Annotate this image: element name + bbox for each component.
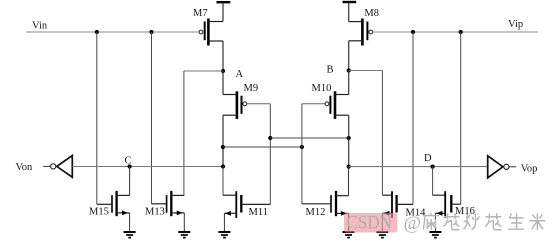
svg-text:M16: M16 (455, 206, 475, 217)
wire M14 drain vertical (412, 32, 414, 204)
ground M12 (343, 232, 355, 238)
wire M16 drain vertical (460, 32, 462, 204)
ground M16 (429, 232, 441, 238)
junction dot cross right (347, 136, 351, 140)
svg-text:M13: M13 (145, 207, 165, 218)
junction dot on M10-gate line (221, 145, 225, 149)
node C junction (221, 164, 225, 168)
junction dot M10 gate line (300, 145, 304, 149)
wire node A to M9 source (222, 71, 224, 95)
ground M13 (178, 232, 190, 238)
watermark CSDN logo box (344, 213, 398, 233)
transistor M12 (NMOS) (302, 167, 349, 232)
transistor M8 (PMOS, gate right with bubble) (349, 19, 373, 46)
wire M8 drain to node B (348, 41, 350, 71)
wire M9 drain down to node C (222, 115, 224, 166)
wire cross horizontal upper (270, 137, 348, 139)
wire M10 gate vertical to M12 gate (301, 104, 303, 204)
svg-text:Vin: Vin (32, 21, 48, 32)
ground M15 (124, 232, 136, 238)
svg-text:Von: Von (16, 162, 33, 173)
wire node D to M16 gate (432, 167, 434, 196)
wire node B to M10 source (348, 71, 350, 95)
inverter Von (43, 156, 72, 178)
power VDD2 (343, 2, 357, 22)
watermark hanzi strokes (423, 213, 546, 230)
wire M13 gate vertical (151, 32, 153, 204)
ground M14 (376, 232, 388, 238)
transistor M9 (PMOS, gate right) (223, 91, 247, 119)
transistor M16 (NMOS, source left) (433, 191, 461, 231)
transistor M15 (NMOS) (97, 167, 130, 232)
wire M10 gate horizontal (302, 103, 325, 105)
wire node C row (72, 166, 223, 168)
svg-text:CSDN: CSDN (347, 214, 393, 234)
junction dot cross left (268, 136, 272, 140)
power VDD1 (217, 2, 231, 21)
svg-text:A: A (236, 69, 244, 80)
wire Vin rail (26, 31, 199, 33)
wire cross horizontal lower (223, 146, 302, 148)
svg-text:M8: M8 (364, 8, 379, 19)
svg-text:M9: M9 (244, 83, 259, 94)
svg-text:M11: M11 (249, 207, 268, 218)
node A junction (221, 69, 225, 73)
svg-text:M10: M10 (312, 83, 332, 94)
transistor M10 (PMOS, gate left) (325, 91, 349, 119)
node D junction (431, 165, 435, 169)
svg-text:Vop: Vop (521, 164, 538, 175)
transistor M11 (NMOS, source left) (223, 191, 270, 231)
transistor M13 (NMOS) (152, 191, 185, 232)
svg-text:M7: M7 (193, 8, 208, 19)
transistor M7 (PMOS) (199, 19, 223, 46)
wire node A left branch (184, 71, 223, 195)
svg-text:M15: M15 (89, 207, 109, 218)
svg-text:C: C (125, 156, 132, 167)
junction dot Vin-M13 (149, 30, 153, 34)
junction dot Vin-M15 (95, 30, 99, 34)
junction dot Vip-M14 (411, 30, 415, 34)
inverter Vop (488, 156, 517, 178)
ground M11 (218, 232, 230, 238)
svg-text:D: D (424, 153, 432, 164)
wire M15 gate vertical (96, 32, 98, 204)
wire M10 drain down to node D (348, 115, 350, 166)
wire M9 gate to cross node (247, 104, 270, 205)
junction dot D-row left (347, 165, 351, 169)
svg-text:M12: M12 (306, 207, 326, 218)
wire node D row (349, 166, 488, 168)
node B junction (347, 68, 351, 72)
svg-text:B: B (327, 65, 334, 76)
wire node B right branch (349, 71, 383, 196)
wire Vip rail (373, 31, 538, 33)
wire M7 drain to node A (222, 41, 224, 71)
junction dot M15 drain (128, 164, 132, 168)
junction dot Vip-M16 (459, 30, 463, 34)
svg-text:@: @ (404, 213, 422, 234)
wire node C to M11 gate (222, 167, 224, 196)
transistor M14 (NMOS, source left) (382, 191, 413, 231)
svg-text:Vip: Vip (508, 19, 523, 30)
